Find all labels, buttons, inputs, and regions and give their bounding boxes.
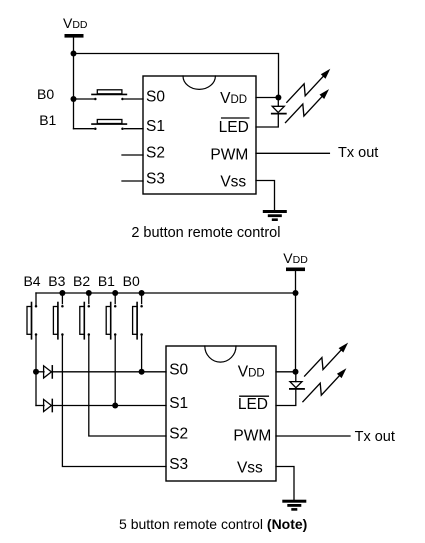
diode D2 cathode bar bbox=[51, 399, 53, 411]
pushbutton B0: actuator bar bbox=[92, 93, 126, 95]
svg-text:VDD: VDD bbox=[238, 363, 265, 380]
wire from VDD bar down left rail to S1 row bbox=[73, 38, 75, 129]
pushbutton B0: contacts bbox=[94, 98, 97, 101]
diode D1 cathode bar bbox=[51, 366, 53, 378]
svg-text:VDD: VDD bbox=[63, 15, 88, 31]
svg-text:Tx out: Tx out bbox=[355, 429, 395, 445]
wire: corner from left rail into B1 bbox=[74, 128, 94, 130]
svg-text:S1: S1 bbox=[146, 118, 165, 135]
wire: Vss to ground bbox=[256, 181, 275, 211]
wire: B4 column down through S0 node to S1 corner bbox=[35, 336, 37, 405]
wire: VDD pin to LED column bbox=[256, 97, 278, 99]
svg-text:5 button remote control (Note): 5 button remote control (Note) bbox=[119, 516, 307, 532]
pushbutton B4 (vertical) bbox=[27, 293, 37, 339]
power symbol VDD (top left) bar bbox=[65, 34, 84, 38]
node rail B2 bbox=[86, 290, 92, 296]
wire: B0 column down to S0 row bbox=[141, 336, 143, 372]
power symbol VDD (bottom right) bar bbox=[286, 268, 305, 272]
pin stub S2 bbox=[122, 154, 143, 156]
svg-text:B0: B0 bbox=[37, 86, 54, 102]
svg-text:B1: B1 bbox=[39, 112, 56, 128]
node rail B0 bbox=[139, 290, 145, 296]
wire: B3 column down to S3 row bbox=[62, 336, 166, 466]
LED D3 cathode bar bbox=[290, 388, 304, 390]
pin stub S3 bbox=[122, 180, 143, 182]
svg-text:VDD: VDD bbox=[220, 90, 247, 107]
svg-text:B0: B0 bbox=[123, 273, 140, 289]
LED D1 triangle bbox=[272, 106, 284, 112]
wire: LED cathode to LED pin bbox=[256, 114, 278, 127]
pushbutton B2 (vertical) bbox=[80, 293, 90, 339]
svg-text:S0: S0 bbox=[169, 361, 188, 378]
diode D1 triangle bbox=[44, 366, 52, 378]
svg-text:LED: LED bbox=[219, 119, 249, 136]
wire: VDD down to VDD pin row bbox=[295, 271, 297, 372]
ground (bottom circuit) bbox=[282, 500, 306, 511]
pushbutton B0: right wire to pin S0 bbox=[124, 98, 143, 100]
node: B1 on S1 row bbox=[112, 403, 118, 409]
pushbutton B3 (vertical) bbox=[53, 293, 63, 339]
LED D1 (2-button): anode lead bbox=[277, 98, 279, 107]
IR arrow 1 (bottom) bbox=[305, 343, 349, 377]
pushbutton B1 (vertical) bbox=[106, 293, 116, 339]
pushbutton B1: right wire to pin S1 bbox=[124, 128, 143, 130]
pin label LED overline bbox=[222, 117, 249, 119]
node: B4/diode S0 junction bbox=[33, 369, 39, 375]
svg-text:S0: S0 bbox=[146, 89, 165, 106]
node: VDD rail junction bbox=[71, 51, 77, 57]
svg-text:PWM: PWM bbox=[210, 147, 248, 164]
wire: B1 column down to S1 row bbox=[114, 336, 116, 405]
IC U2 body (5-button) bbox=[166, 346, 276, 481]
svg-text:B3: B3 bbox=[48, 273, 65, 289]
svg-text:S3: S3 bbox=[169, 456, 188, 473]
svg-text:Vss: Vss bbox=[237, 460, 263, 477]
wire: PWM to Tx out bbox=[256, 152, 329, 154]
svg-text:VDD: VDD bbox=[283, 250, 308, 266]
wire: Vss to ground (U2) bbox=[276, 467, 294, 500]
pushbutton B1: cap bbox=[97, 120, 122, 124]
node: junction at B0 row on left rail bbox=[71, 96, 77, 102]
pushbutton B1: actuator bar bbox=[92, 123, 126, 125]
pushbutton B0 (vertical) bbox=[133, 293, 143, 339]
svg-text:B1: B1 bbox=[98, 273, 115, 289]
diode D1 (S0 row): anode wire bbox=[36, 371, 44, 373]
svg-text:S3: S3 bbox=[146, 171, 165, 188]
LED D1 cathode bar bbox=[272, 113, 286, 115]
wire: top supply rail to LED column bbox=[74, 54, 279, 98]
svg-text:B4: B4 bbox=[23, 273, 40, 289]
svg-text:LED: LED bbox=[238, 396, 268, 413]
wire: LED cathode to LED pin (U2) bbox=[276, 389, 296, 406]
IC U2 notch bbox=[205, 346, 236, 362]
IR arrow 1 (top) bbox=[287, 69, 331, 103]
wire: PWM to Tx out (U2) bbox=[276, 435, 350, 437]
IC U1 notch bbox=[183, 76, 215, 89]
node: LED anode junction bbox=[275, 95, 281, 101]
node rail VDD bbox=[293, 290, 299, 296]
node rail B3 bbox=[59, 290, 65, 296]
svg-text:Tx out: Tx out bbox=[338, 145, 378, 161]
LED D3 triangle bbox=[290, 382, 302, 388]
svg-text:S2: S2 bbox=[146, 145, 165, 162]
svg-text:S1: S1 bbox=[169, 395, 188, 412]
svg-text:S2: S2 bbox=[169, 426, 188, 443]
diode D2 triangle bbox=[44, 399, 52, 411]
svg-text:Vss: Vss bbox=[220, 174, 246, 191]
pushbutton B0: cap bbox=[97, 90, 122, 94]
wire: B2 column down to S2 row bbox=[89, 336, 166, 436]
node: B0 on S0 row bbox=[139, 369, 145, 375]
LED D3 (5-button): anode lead bbox=[295, 372, 297, 382]
svg-text:PWM: PWM bbox=[233, 428, 271, 445]
pushbutton B0: left wire bbox=[74, 98, 94, 100]
diode D2 (S1 row): anode wire bbox=[36, 405, 44, 407]
node: LED anode junction (U2) bbox=[293, 369, 299, 375]
IR arrow 2 (bottom) bbox=[303, 368, 347, 402]
IR arrow 2 (top) bbox=[286, 89, 330, 123]
wire: VDD pin stub bbox=[276, 371, 296, 373]
wire: S1 row to IC bbox=[52, 405, 166, 407]
svg-text:2 button remote control: 2 button remote control bbox=[131, 225, 280, 241]
wire: top rail of 5-button circuit bbox=[36, 292, 296, 294]
pin label LED overline (U2) bbox=[240, 395, 269, 397]
op-amp U1: IC body (2-button) bbox=[143, 76, 256, 194]
ground (top circuit) bbox=[263, 210, 287, 221]
wire: S0 row to IC bbox=[52, 371, 166, 373]
node rail B1 bbox=[112, 290, 118, 296]
pushbutton B1: contacts bbox=[94, 127, 97, 130]
svg-text:B2: B2 bbox=[73, 273, 90, 289]
